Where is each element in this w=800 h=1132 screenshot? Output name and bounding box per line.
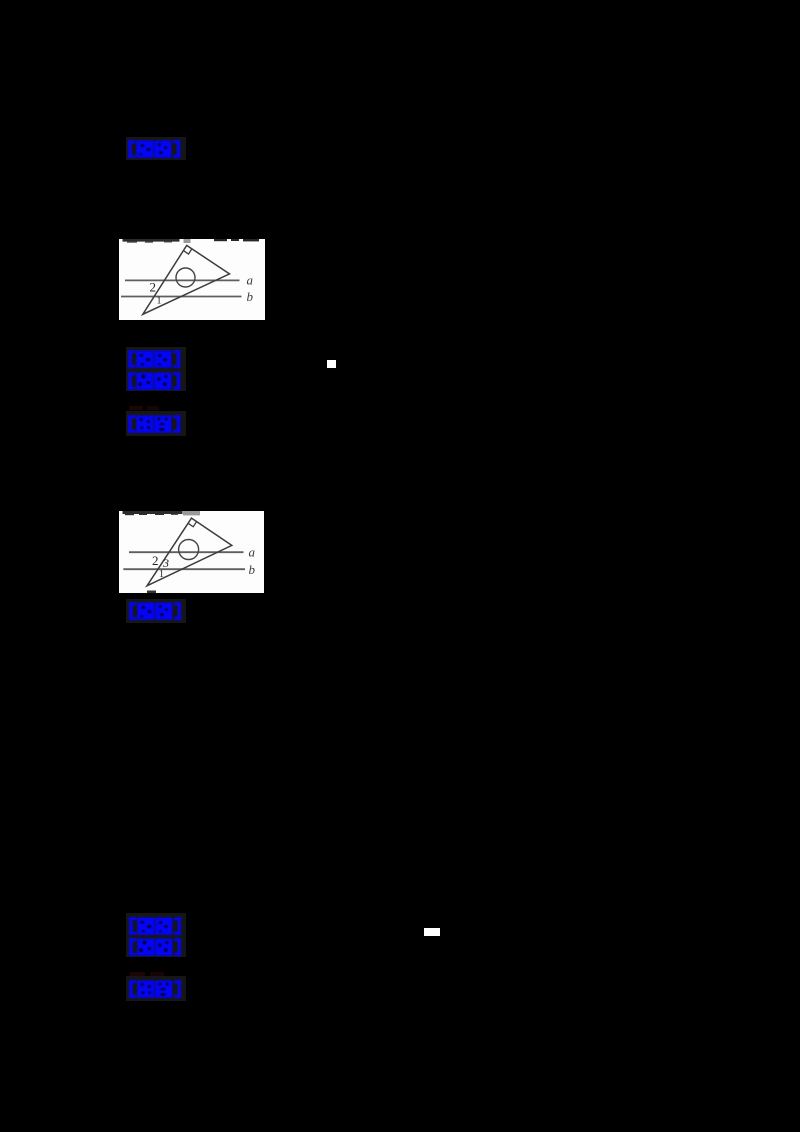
svg-text:b: b (247, 289, 254, 304)
svg-text:a: a (247, 273, 254, 288)
marker 【考点】 M2 (128, 350, 181, 368)
marker 【点评】 M5 (129, 602, 182, 620)
right-angle square (183, 249, 191, 254)
ghost behind marker group B (126, 913, 186, 957)
line a (129, 551, 244, 553)
white dash mark (424, 928, 440, 936)
triangle (147, 518, 232, 586)
right-angle square (188, 521, 197, 526)
svg-text:1: 1 (159, 569, 164, 580)
marker 【解答】 M4 (128, 415, 181, 433)
svg-text:b: b (249, 561, 256, 576)
marker 【分析】 M3 (128, 372, 181, 390)
figure image 2 (119, 511, 264, 593)
svg-text:2: 2 (150, 280, 157, 295)
cropped text smudge top (123, 239, 260, 243)
marker 【考点】 M6 (129, 917, 182, 935)
svg-text:2: 2 (152, 553, 159, 568)
circle hole (179, 539, 199, 559)
ghost behind marker group A (126, 347, 186, 391)
white square mark (327, 360, 336, 368)
circle hole (176, 268, 195, 287)
svg-text:a: a (249, 544, 256, 559)
ghost behind marker M5 (126, 599, 186, 623)
svg-text:3: 3 (162, 556, 169, 570)
triangle (143, 245, 230, 314)
line a (125, 279, 240, 281)
faint gray highlight behind marker 1 (126, 137, 186, 160)
figure image 1 (119, 239, 265, 320)
marker 【点评】 M1 (128, 140, 181, 158)
svg-text:1: 1 (157, 296, 162, 307)
marker 【分析】 M7 (129, 938, 182, 956)
line b (123, 568, 245, 570)
marker 【解答】 M8 (129, 980, 182, 998)
line b (121, 296, 242, 298)
